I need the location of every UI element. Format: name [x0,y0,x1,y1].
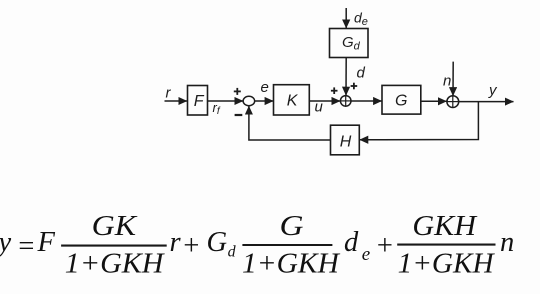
eq fraction3 bar [397,244,495,246]
block Gd [330,29,369,58]
wire Gd to sum2 [345,58,347,96]
wire branch down from node [360,102,479,140]
svg-text:F: F [194,93,205,110]
svg-text:d: d [357,65,366,82]
svg-text:1+GKH: 1+GKH [65,248,166,279]
wire H to sum1 [249,106,331,140]
sign plus S2 left [331,87,338,94]
block H [331,125,360,155]
svg-text:y: y [0,227,12,258]
svg-text:=: = [17,231,36,262]
svg-text:u: u [315,99,324,116]
eq fraction2 bar [242,244,332,246]
wire n input [452,62,454,96]
summing junction S3 [447,96,459,108]
sign plus S1 [234,88,241,95]
summing junction S1 [243,96,255,105]
svg-text:K: K [287,92,299,109]
wire K to sum2 [309,100,340,102]
svg-text:n: n [500,227,514,258]
svg-text:F: F [37,227,56,258]
svg-text:GKH: GKH [412,211,478,242]
svg-text:GK: GK [92,211,138,242]
svg-text:Gd: Gd [342,34,361,52]
summing junction S2 [340,96,351,107]
block G [382,85,421,114]
svg-text:G: G [395,93,407,110]
sign plus S2 top [351,83,358,90]
svg-text:1+GKH: 1+GKH [398,248,496,279]
svg-text:+: + [375,230,394,261]
svg-text:de: de [354,9,368,28]
svg-text:y: y [488,82,498,99]
wire d_e input [345,8,347,28]
svg-text:1+GKH: 1+GKH [242,248,341,279]
svg-text:n: n [443,73,451,90]
svg-text:G: G [280,211,304,242]
svg-text:r: r [166,85,172,102]
wire sum3 to output y [458,101,513,103]
svg-text:de: de [344,227,370,265]
wire r input [165,100,188,102]
wire G to sum3 [421,100,447,102]
svg-text:rf: rf [213,100,221,117]
wire F to sum1 [208,100,244,102]
svg-text:r: r [170,227,182,258]
wire sum1 to K [255,100,274,102]
block K [274,85,310,115]
svg-text:H: H [340,133,352,150]
svg-text:Gd: Gd [207,227,237,261]
svg-text:e: e [261,79,269,96]
sign minus S1 [235,114,243,116]
wire sum2 to G [351,100,382,102]
svg-text:+: + [182,230,201,261]
eq fraction1 bar [61,245,167,247]
block F [188,86,208,116]
